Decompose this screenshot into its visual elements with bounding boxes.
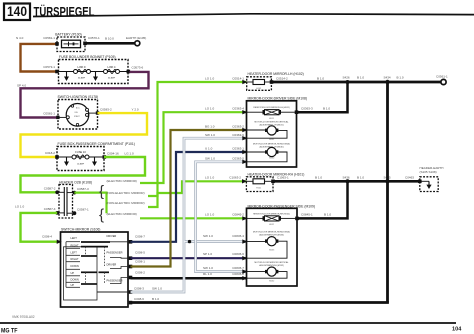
svg-text:M133: M133 bbox=[269, 250, 275, 252]
svg-text:C0363-3: C0363-3 bbox=[301, 106, 313, 110]
svg-text:SP 1.0: SP 1.0 bbox=[203, 252, 212, 256]
pin heater LH in bbox=[242, 80, 247, 84]
wire green K108 out upper to option braces bbox=[74, 193, 106, 214]
svg-text:C0587-1: C0587-1 bbox=[77, 208, 89, 212]
earth ring terminal E105 bbox=[135, 41, 140, 46]
wire brown battery feed bbox=[21, 44, 59, 72]
S106 contact bar 2 bbox=[81, 246, 108, 248]
svg-text:C1063-2: C1063-2 bbox=[229, 176, 241, 180]
svg-text:30 AMP: 30 AMP bbox=[78, 77, 86, 80]
svg-text:104: 104 bbox=[452, 327, 462, 333]
svg-text:C008-1: C008-1 bbox=[135, 260, 145, 264]
svg-text:PASSENGER: PASSENGER bbox=[107, 251, 123, 255]
svg-text:(S105 S108): (S105 S108) bbox=[420, 170, 437, 174]
svg-text:FUSE BOX-UNDER BONNET (P105): FUSE BOX-UNDER BONNET (P105) bbox=[59, 55, 115, 59]
svg-text:LG 1.0: LG 1.0 bbox=[205, 107, 214, 111]
svg-text:(NON-ELECTRIC MIRROR): (NON-ELECTRIC MIRROR) bbox=[107, 201, 145, 205]
fuse LINK 4 bbox=[104, 65, 120, 80]
fuse FUSE 10 bbox=[72, 150, 89, 166]
svg-text:LINK 4: LINK 4 bbox=[108, 65, 116, 69]
svg-text:LG 1.0: LG 1.0 bbox=[125, 152, 134, 156]
svg-text:B 1.0: B 1.0 bbox=[397, 76, 404, 80]
wire purple ignition feed bbox=[21, 72, 149, 118]
S106 contact bar 5 bbox=[99, 271, 110, 273]
svg-text:M131: M131 bbox=[269, 139, 275, 141]
wire black battery to earth ring bbox=[85, 42, 135, 45]
svg-text:C0581-1: C0581-1 bbox=[43, 36, 55, 40]
wire white common A outline bbox=[131, 138, 247, 292]
svg-text:LG 1.0: LG 1.0 bbox=[205, 77, 214, 81]
wire black heater LH to earth riser and ring bbox=[272, 81, 442, 84]
svg-text:LINK 9: LINK 9 bbox=[78, 65, 86, 69]
pin M109 navy bbox=[242, 256, 247, 260]
svg-text:LG 1.0: LG 1.0 bbox=[205, 176, 214, 180]
svg-text:RESISTOR-DOOR MIRROR-RH (H242): RESISTOR-DOOR MIRROR-RH (H242) bbox=[253, 213, 290, 215]
S106 inner frame bbox=[64, 247, 98, 300]
S106 gang link 4 bbox=[104, 272, 106, 284]
svg-text:B 1.0: B 1.0 bbox=[152, 297, 159, 301]
header earth label bbox=[420, 166, 444, 174]
S106 output PASSENGER 2 bbox=[107, 278, 131, 284]
svg-text:C008-5: C008-5 bbox=[135, 250, 145, 254]
svg-text:{: { bbox=[99, 207, 104, 224]
wire white common B core bbox=[196, 162, 247, 272]
junction S426 bbox=[385, 80, 389, 84]
S106 gang link 2 bbox=[104, 247, 106, 266]
S106 output DRIVER 2 bbox=[107, 263, 131, 269]
pin M108 resistor out bbox=[295, 110, 299, 114]
svg-text:S436: S436 bbox=[343, 175, 350, 179]
internal wire bbox=[57, 156, 104, 158]
pin P105 left bbox=[55, 70, 59, 74]
svg-text:C0845-1: C0845-1 bbox=[301, 213, 313, 217]
header rule bbox=[33, 14, 474, 17]
motor door mirror horizontal LH M130 bbox=[247, 147, 288, 161]
svg-text:C0845-4: C0845-4 bbox=[232, 234, 244, 238]
svg-text:SW 1.0: SW 1.0 bbox=[152, 286, 162, 290]
svg-text:SWITCH-MIRROR (S106): SWITCH-MIRROR (S106) bbox=[61, 227, 100, 231]
pin S106 green input bbox=[57, 240, 62, 244]
wire navy driver horizontal riser bbox=[131, 152, 247, 242]
svg-text:C0570-1: C0570-1 bbox=[88, 36, 100, 40]
wire black heater RH to earth header bbox=[273, 180, 420, 183]
wire black passenger feed bbox=[131, 277, 247, 280]
svg-text:BG 1.0: BG 1.0 bbox=[205, 125, 215, 129]
svg-text:C0845-6: C0845-6 bbox=[232, 252, 244, 256]
mirror door passenger side M109 box bbox=[247, 208, 298, 286]
svg-text:(ELECTRIC MIRROR): (ELECTRIC MIRROR) bbox=[107, 179, 137, 183]
svg-text:10 AMP: 10 AMP bbox=[77, 163, 85, 166]
heater door mirror RH H101 bbox=[246, 177, 273, 192]
svg-text:U 1.0: U 1.0 bbox=[205, 147, 213, 151]
svg-text:C018-2: C018-2 bbox=[45, 151, 55, 155]
pin P105 right bbox=[127, 70, 131, 74]
svg-text:SW 1.0: SW 1.0 bbox=[205, 157, 215, 161]
S106 output PASSENGER 1 bbox=[107, 251, 131, 259]
motor door mirror horizontal LH label bbox=[253, 143, 291, 149]
S106 terminal DOWN 2 bbox=[66, 277, 80, 282]
motor door mirror horizontal RH label bbox=[253, 230, 291, 236]
fuse box passenger compartment P101 bbox=[57, 147, 104, 171]
wire white common B outline bbox=[196, 162, 247, 272]
svg-text:SW 1.0: SW 1.0 bbox=[203, 266, 213, 270]
svg-text:ADJUSTMENT-RH (M133): ADJUSTMENT-RH (M133) bbox=[259, 233, 284, 236]
pin M109 resistor in bbox=[242, 216, 247, 220]
page number box 140 bbox=[4, 4, 30, 21]
earth ring terminal right bbox=[441, 79, 446, 84]
svg-text:S426: S426 bbox=[343, 76, 350, 80]
svg-text:SP 4.0: SP 4.0 bbox=[17, 84, 26, 88]
wire green non-electric option LH to heater LH bbox=[148, 82, 247, 196]
svg-text:C0581-1: C0581-1 bbox=[43, 112, 55, 116]
svg-text:B 1.0: B 1.0 bbox=[317, 76, 324, 80]
wire black earth riser bbox=[386, 82, 389, 303]
S106 terminal LEFT 2 bbox=[66, 250, 80, 255]
svg-text:SW 1.0: SW 1.0 bbox=[203, 234, 213, 238]
wire black M108 resistor to splice S426 bbox=[297, 82, 348, 112]
pin M108 white A bbox=[242, 136, 247, 140]
wire green electric option RH to M109 resistor bbox=[140, 217, 247, 219]
svg-text:MOTOR-DOOR MIRROR-HORIZONTAL: MOTOR-DOOR MIRROR-HORIZONTAL bbox=[253, 230, 291, 233]
wire black ground return bbox=[131, 301, 389, 304]
svg-text:B 1.0: B 1.0 bbox=[324, 213, 331, 217]
svg-text:MIRROR-DOOR-DRIVER SIDE (M108): MIRROR-DOOR-DRIVER SIDE (M108) bbox=[248, 97, 308, 101]
motor door mirror horizontal RH M133 bbox=[247, 237, 288, 259]
switch mirror S106 box bbox=[61, 232, 129, 307]
svg-text:B 1.0: B 1.0 bbox=[357, 76, 364, 80]
wire navy passenger horizontal bbox=[131, 257, 247, 259]
svg-text:HEATER-DOOR MIRROR-RH (H101): HEATER-DOOR MIRROR-RH (H101) bbox=[248, 172, 305, 176]
svg-text:FUSE 10: FUSE 10 bbox=[75, 150, 86, 154]
svg-text:UP: UP bbox=[71, 271, 75, 275]
svg-text:C0561-1: C0561-1 bbox=[436, 75, 448, 79]
pin M108 navy bbox=[242, 150, 247, 154]
pin M109 resistor out bbox=[295, 217, 299, 221]
S106 contact bar 4 bbox=[81, 271, 97, 273]
S106 white row internal bbox=[97, 291, 131, 293]
pin C008-2 bbox=[129, 276, 133, 280]
wire yellow switched feed bbox=[21, 113, 148, 157]
svg-text:B 1.0: B 1.0 bbox=[315, 176, 322, 180]
svg-text:LG 1.0: LG 1.0 bbox=[15, 205, 24, 209]
pin C008-7 bbox=[129, 240, 133, 244]
svg-text:EARTH (E105): EARTH (E105) bbox=[126, 36, 146, 40]
svg-text:C0845-2: C0845-2 bbox=[232, 213, 244, 217]
motor door mirror vertical LH M131 bbox=[247, 126, 288, 141]
S106 terminal RIGHT 2 bbox=[66, 257, 80, 262]
mirror door driver side M108 box bbox=[247, 101, 297, 167]
svg-text:MOTOR-DOOR MIRROR-VERTICAL: MOTOR-DOOR MIRROR-VERTICAL bbox=[255, 261, 290, 264]
svg-text:UP: UP bbox=[71, 283, 75, 287]
svg-text:SWITCH-IGNITION (S178): SWITCH-IGNITION (S178) bbox=[58, 95, 99, 99]
svg-text:MG TF: MG TF bbox=[1, 328, 18, 334]
svg-text:C008-3: C008-3 bbox=[134, 286, 144, 290]
wire white common A core bbox=[131, 138, 247, 292]
resistor door mirror LH bbox=[247, 110, 297, 120]
svg-text:LEFT: LEFT bbox=[71, 236, 78, 240]
pin M108 resistor in bbox=[242, 110, 247, 114]
svg-text:(NON-ELECTRIC MIRROR): (NON-ELECTRIC MIRROR) bbox=[107, 191, 145, 195]
svg-text:RIGHT: RIGHT bbox=[71, 257, 79, 261]
svg-text:MOTOR-DOOR MIRROR-HORIZONTAL: MOTOR-DOOR MIRROR-HORIZONTAL bbox=[253, 143, 291, 146]
switch ignition S178 bbox=[56, 100, 99, 130]
svg-text:DRIVER: DRIVER bbox=[107, 234, 117, 238]
S106 terminal LEFT 1 bbox=[66, 236, 80, 242]
svg-text:BATTERY (P100): BATTERY (P100) bbox=[55, 33, 81, 37]
fuse box under bonnet P105 bbox=[59, 60, 129, 84]
svg-text:140: 140 bbox=[7, 4, 27, 19]
svg-text:N 4.0: N 4.0 bbox=[16, 36, 24, 40]
svg-text:DRIVER: DRIVER bbox=[107, 263, 117, 267]
svg-text:DOWN: DOWN bbox=[71, 264, 79, 268]
S106 contact bar 3 bbox=[81, 255, 97, 257]
S106 left bus bbox=[65, 242, 67, 288]
svg-text:{: { bbox=[99, 183, 104, 200]
header K108 bbox=[55, 185, 76, 219]
svg-text:(ELECTRIC MIRROR): (ELECTRIC MIRROR) bbox=[107, 212, 137, 216]
svg-text:C008-2: C008-2 bbox=[135, 271, 145, 275]
svg-text:LG 1.0: LG 1.0 bbox=[205, 213, 214, 217]
motor door mirror vertical RH M132 bbox=[247, 267, 288, 282]
heater door mirror LH H102 bbox=[247, 77, 272, 91]
svg-text:B 1.0: B 1.0 bbox=[323, 106, 330, 110]
S106 terminal UP 1 bbox=[66, 271, 80, 276]
svg-text:C008-6: C008-6 bbox=[134, 297, 144, 301]
junction S436 bbox=[346, 179, 350, 183]
header earth S105 bbox=[420, 177, 438, 192]
earth arrow 1 bbox=[64, 157, 69, 166]
svg-text:DOWN: DOWN bbox=[71, 277, 79, 281]
pin C008-5 bbox=[129, 256, 133, 260]
S106 gang link 1 bbox=[85, 247, 87, 256]
wire green electric option LH to M108 resistor bbox=[140, 112, 247, 183]
junction white common bbox=[188, 240, 191, 243]
pin heater RH out bbox=[271, 180, 275, 184]
svg-text:C0587-4: C0587-4 bbox=[44, 207, 56, 211]
junction S426 bbox=[346, 80, 350, 84]
wire green non-electric option RH to heater RH bbox=[148, 181, 247, 207]
svg-text:C004-16: C004-16 bbox=[107, 152, 119, 156]
svg-text:B 10.0: B 10.0 bbox=[105, 37, 114, 41]
pin M109 white B bbox=[242, 269, 247, 273]
svg-text:30 AMP: 30 AMP bbox=[108, 77, 116, 80]
pin heater LH out bbox=[270, 80, 274, 84]
svg-text:MOTOR-DOOR MIRROR-VERTICAL: MOTOR-DOOR MIRROR-VERTICAL bbox=[255, 120, 290, 123]
svg-text:SW 1.0: SW 1.0 bbox=[205, 133, 215, 137]
earth arrow 2 bbox=[93, 72, 98, 82]
svg-text:RIGHT: RIGHT bbox=[71, 243, 79, 247]
resistor door mirror RH bbox=[247, 216, 298, 226]
wire black M109 resistor to splice S436 bbox=[297, 181, 348, 218]
svg-text:C1063-1: C1063-1 bbox=[277, 176, 289, 180]
svg-text:VMK 970/8-A02: VMK 970/8-A02 bbox=[12, 315, 35, 319]
svg-text:C0573-1: C0573-1 bbox=[43, 65, 55, 69]
svg-text:Y 2.0: Y 2.0 bbox=[132, 108, 139, 112]
S106 terminal UP 2 bbox=[66, 283, 80, 288]
svg-text:RL 1.0: RL 1.0 bbox=[203, 272, 212, 276]
svg-text:C0587-2: C0587-2 bbox=[44, 187, 56, 191]
pin M108 olive bbox=[242, 128, 247, 132]
junction S436 bbox=[385, 179, 389, 183]
S106 contact bar 1 bbox=[81, 241, 110, 243]
svg-text:FUSE BOX-PASSENGER COMPARTMENT: FUSE BOX-PASSENGER COMPARTMENT (P101) bbox=[58, 142, 135, 146]
S106 terminal RIGHT 1 bbox=[66, 243, 80, 248]
pin heater RH in bbox=[242, 179, 247, 183]
svg-text:M130: M130 bbox=[269, 157, 275, 159]
footer rule bbox=[0, 322, 456, 324]
title TÜRSPIEGEL bbox=[34, 4, 95, 19]
svg-text:S434: S434 bbox=[384, 76, 391, 80]
svg-text:C0514-2: C0514-2 bbox=[276, 76, 288, 80]
svg-text:C0583-2: C0583-2 bbox=[100, 108, 112, 112]
S106 gang link 3 bbox=[85, 272, 87, 284]
earth arrow 1 bbox=[64, 72, 69, 82]
svg-text:C0587-3: C0587-3 bbox=[77, 187, 89, 191]
S106 terminal DOWN 1 bbox=[66, 264, 80, 269]
internal wire bbox=[59, 71, 129, 73]
pin C008-3 bbox=[129, 290, 133, 294]
motor door mirror vertical LH label bbox=[255, 120, 290, 126]
S106 contact bar 6 bbox=[81, 283, 97, 285]
wire green K108 lower to mirror switch bbox=[21, 213, 61, 242]
pin header earth bbox=[418, 180, 422, 184]
svg-text:C008-4: C008-4 bbox=[42, 235, 52, 239]
svg-text:C0463: C0463 bbox=[405, 175, 414, 179]
pin P101 left bbox=[55, 155, 59, 159]
svg-text:PASSENGER: PASSENGER bbox=[107, 279, 123, 283]
svg-text:START: START bbox=[74, 115, 81, 118]
svg-text:HEADER O2B (K108): HEADER O2B (K108) bbox=[59, 180, 92, 184]
S106 output DRIVER 1 bbox=[107, 234, 131, 242]
svg-text:C008-7: C008-7 bbox=[135, 234, 145, 238]
pin M109 white A bbox=[242, 239, 247, 243]
svg-text:M132: M132 bbox=[269, 280, 275, 282]
svg-text:C0573-6: C0573-6 bbox=[132, 66, 144, 70]
pin M109 black bbox=[242, 276, 247, 280]
svg-text:RESISTOR-DOOR MIRROR-LH (H241): RESISTOR-DOOR MIRROR-LH (H241) bbox=[253, 107, 290, 109]
battery P100 bbox=[55, 37, 87, 52]
svg-text:C0845-7: C0845-7 bbox=[232, 266, 244, 270]
wire olive driver vertical riser bbox=[131, 130, 247, 267]
svg-text:LEFT: LEFT bbox=[71, 250, 78, 254]
earth arrow 2 bbox=[92, 157, 97, 166]
svg-text:B 1.0: B 1.0 bbox=[357, 175, 364, 179]
pin C008-1 bbox=[129, 265, 133, 269]
motor door mirror vertical RH label bbox=[255, 261, 290, 267]
pin P101 right bbox=[103, 155, 107, 159]
pin M108 white B bbox=[242, 160, 247, 164]
pin C008-6 bbox=[129, 301, 133, 305]
wire green fuse output to header K108 bbox=[21, 157, 146, 192]
fuse LINK 9 bbox=[74, 65, 91, 80]
